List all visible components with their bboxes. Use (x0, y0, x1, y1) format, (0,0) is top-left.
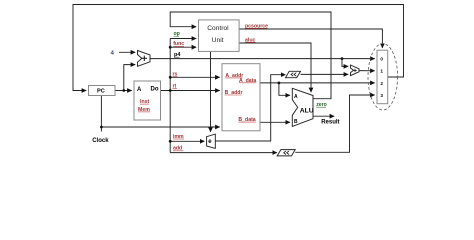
svg-text:1: 1 (380, 69, 383, 74)
svg-text:Control: Control (207, 25, 229, 32)
svg-text:PC: PC (97, 89, 105, 95)
svg-text:0: 0 (380, 57, 383, 62)
svg-text:A: A (137, 87, 142, 93)
svg-text:Result: Result (321, 119, 339, 125)
svg-text:2: 2 (380, 81, 383, 86)
svg-text:Unit: Unit (212, 37, 224, 44)
svg-text:Do: Do (151, 87, 159, 93)
svg-text:3: 3 (380, 93, 383, 98)
svg-text:4: 4 (111, 51, 115, 57)
svg-text:A: A (294, 94, 298, 100)
svg-text:B: B (294, 119, 298, 125)
svg-text:ALU: ALU (300, 107, 314, 114)
svg-text:Clock: Clock (92, 138, 109, 144)
